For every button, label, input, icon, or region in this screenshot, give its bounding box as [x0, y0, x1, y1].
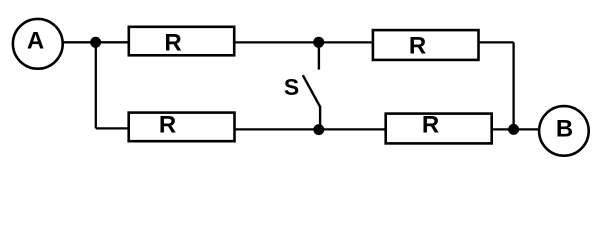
wire to R3 [96, 127, 129, 129]
resistor R (top-left) [129, 27, 234, 56]
wire R3 to bottom junction [235, 128, 386, 130]
switch S lower stub [319, 107, 321, 130]
switch S blade [303, 75, 321, 107]
svg-text:R: R [422, 112, 439, 139]
svg-text:R: R [159, 111, 176, 138]
node junction dot bottom-right [508, 124, 519, 135]
node junction dot bottom-middle [313, 124, 324, 135]
node junction dot top-middle [313, 37, 324, 48]
resistor R (bottom-right) [386, 114, 492, 144]
svg-text:R: R [164, 30, 181, 57]
switch S upper stub [318, 42, 320, 69]
svg-text:A: A [27, 28, 44, 55]
terminal circle A [13, 19, 63, 69]
resistor R (top-right) [373, 30, 479, 60]
wire A to R1 [63, 41, 129, 43]
svg-text:R: R [409, 32, 426, 59]
svg-text:B: B [556, 116, 573, 143]
wire R1 to top junction [234, 41, 373, 43]
wire vertical left branch [95, 42, 97, 128]
node junction dot top-left [90, 37, 101, 48]
svg-text:S: S [284, 74, 299, 100]
wire R4 to bottom-right junction [492, 128, 540, 130]
resistor R (bottom-left) [129, 113, 235, 142]
wire vertical right branch [512, 42, 514, 129]
terminal circle B [539, 106, 589, 156]
wire R2 to right corner [479, 41, 514, 43]
